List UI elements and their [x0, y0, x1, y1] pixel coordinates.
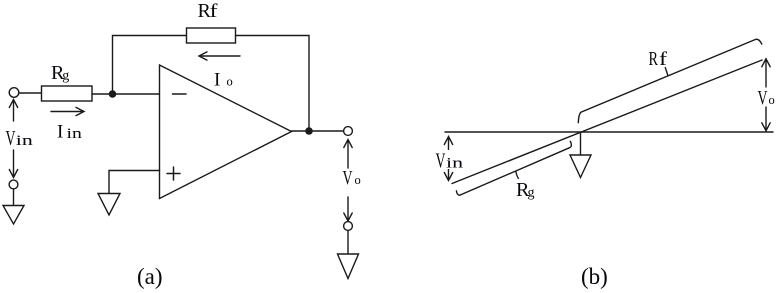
svg-text:in: in [16, 133, 34, 149]
svg-text:in: in [67, 126, 83, 142]
svg-text:f: f [659, 49, 668, 70]
svg-text:g: g [62, 69, 69, 84]
svg-text:o: o [769, 93, 775, 107]
svg-text:I: I [57, 122, 63, 143]
svg-text:(b): (b) [581, 264, 608, 289]
svg-text:R: R [649, 48, 659, 70]
svg-text:V: V [436, 149, 446, 173]
svg-text:o: o [355, 173, 361, 187]
svg-text:o: o [227, 75, 233, 89]
svg-text:I: I [214, 70, 220, 91]
svg-text:(a): (a) [137, 264, 163, 289]
svg-text:V: V [6, 126, 16, 150]
svg-text:f: f [210, 1, 219, 22]
svg-text:V: V [758, 87, 768, 109]
svg-text:g: g [528, 186, 535, 201]
svg-text:in: in [446, 156, 464, 172]
svg-text:V: V [343, 167, 353, 189]
